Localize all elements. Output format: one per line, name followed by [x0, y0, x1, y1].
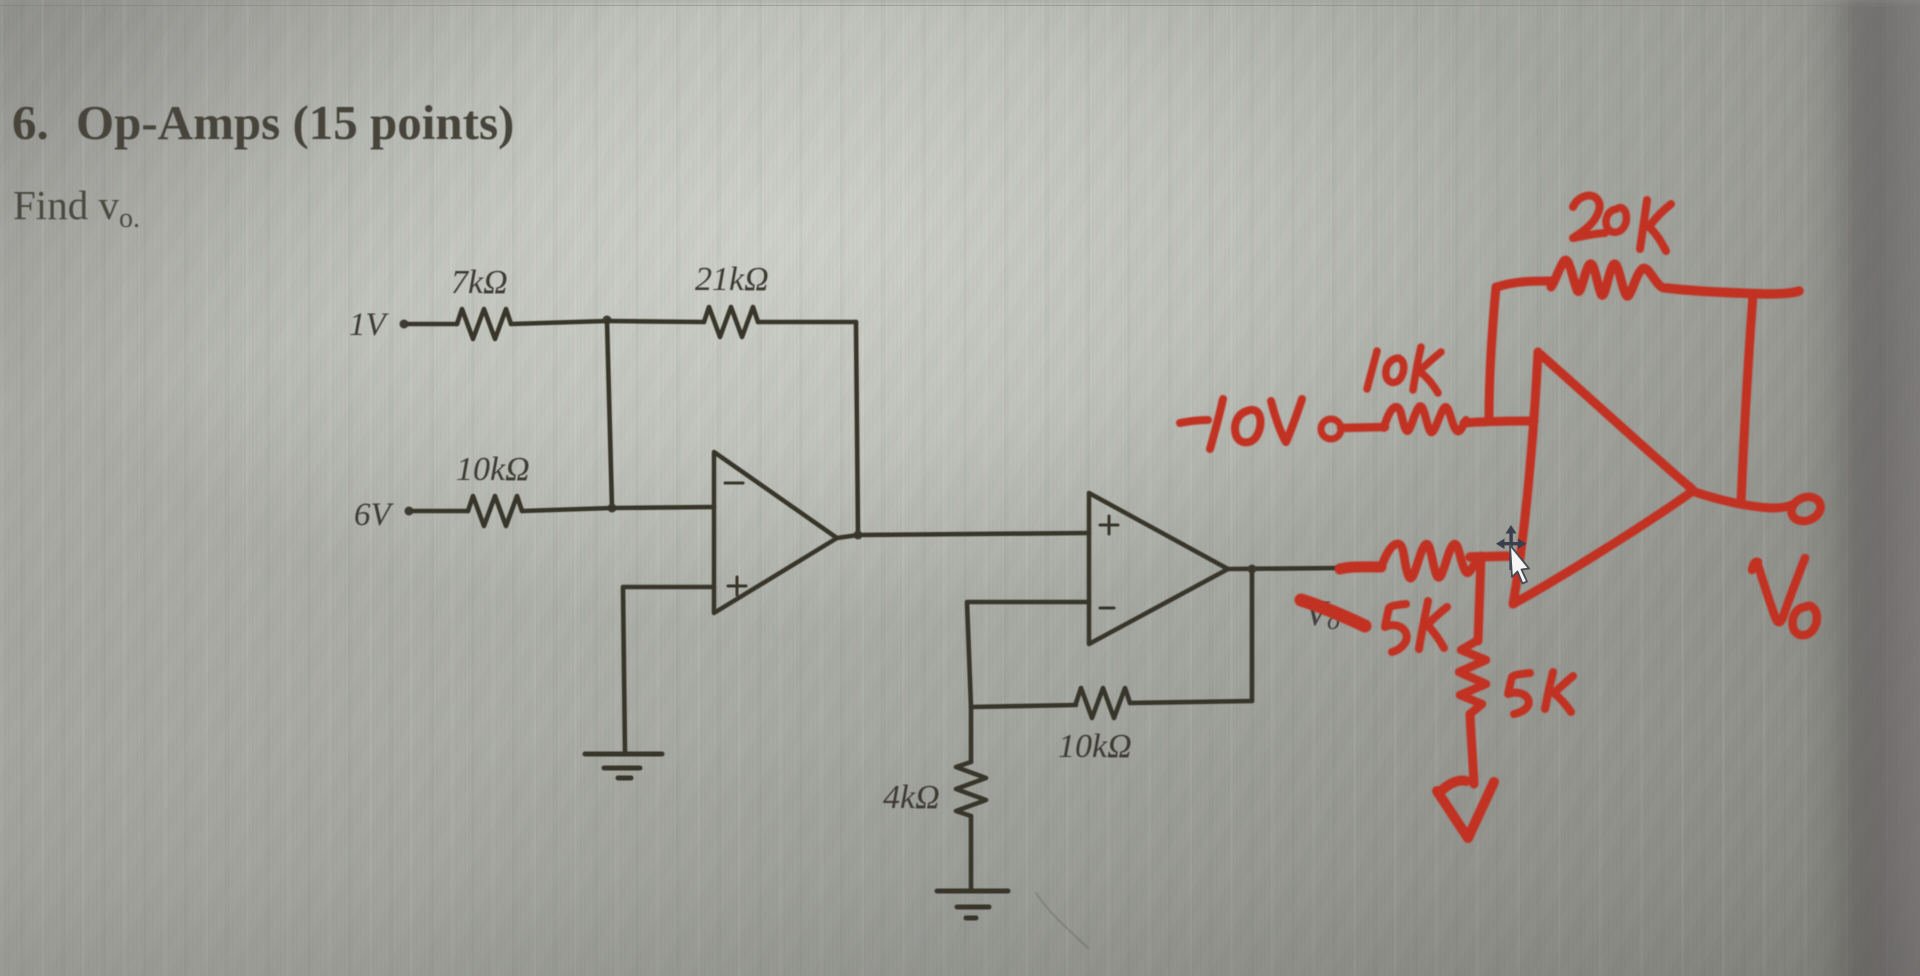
label Vo output (red): [1752, 558, 1817, 635]
op-amp U2 minus pin label: [1100, 607, 1114, 610]
node A junction dot: [603, 316, 612, 325]
node B output junction dot: [854, 531, 863, 540]
resistor 21k zigzag: [704, 307, 758, 337]
ground G3 red arrow: [1437, 780, 1494, 838]
label 7kOhm: [451, 264, 508, 301]
wire feedback to R 10k fb: [1130, 701, 1252, 703]
label -10V source (red): [1180, 399, 1302, 449]
svg-text:10kΩ: 10kΩ: [1058, 728, 1132, 765]
wire feedback vertical down to output node B: [856, 322, 858, 535]
wire U3 output: [1692, 491, 1792, 508]
wire -10V to R 10K red: [1341, 427, 1385, 428]
wire node C to op-amp U1 inverting input: [612, 507, 714, 508]
wire R 4k to ground G2: [969, 816, 974, 889]
scratch mark near G2: [1036, 893, 1088, 948]
wire R 10k to node C: [522, 508, 612, 511]
svg-text:7kΩ: 7kΩ: [451, 264, 508, 301]
op-amp U1 minus pin label: [725, 482, 743, 485]
strike through old Vo label (red): [1301, 600, 1365, 626]
resistor 10K red squiggle: [1384, 406, 1466, 432]
svg-text:6V: 6V: [354, 497, 395, 533]
label 10kOhm feedback: [1058, 728, 1132, 765]
terminal circle output (red): [1788, 493, 1824, 526]
wire U1 noninverting input to ground stub: [623, 587, 714, 753]
label 20K (red): [1573, 196, 1605, 238]
resistor 5K series squiggle: [1381, 544, 1480, 578]
wire R 10K red to op-amp U3: [1464, 421, 1534, 423]
wire node A to R 21k: [607, 321, 704, 322]
ground G1: [585, 754, 662, 778]
svg-text:Find vo.: Find vo.: [13, 182, 140, 234]
svg-text:21kΩ: 21kΩ: [695, 261, 769, 298]
node 1V terminal dot: [400, 320, 409, 329]
op-amp U2 triangle: [1089, 493, 1228, 644]
resistor 5K shunt vertical squiggle: [1459, 640, 1486, 714]
label 10K (red): [1367, 347, 1441, 393]
terminal circle -10V (red): [1321, 419, 1341, 439]
wire 6V to R 10k input: [413, 509, 468, 514]
node E junction dot: [1248, 565, 1257, 574]
svg-text:4kΩ: 4kΩ: [883, 779, 940, 816]
resistor 4k vertical zigzag: [956, 762, 986, 816]
wire U2 output to node E: [1228, 568, 1341, 569]
wire red feedback left vertical: [1489, 287, 1496, 421]
node C junction dot: [608, 504, 617, 513]
wire red feedback right vertical: [1741, 294, 1753, 503]
op-amp U3 triangle (red): [1513, 352, 1692, 604]
wire node F vertical down: [1478, 556, 1481, 641]
node 6V source label: [354, 497, 395, 533]
resistor 10k input zigzag: [468, 496, 522, 526]
svg-text:1V: 1V: [349, 307, 390, 343]
label 4kOhm: [883, 779, 940, 816]
wire node E feedback vertical down: [1250, 569, 1255, 701]
cursor pointer arrow: [1510, 545, 1529, 584]
crossed-out label Vo at U2 output: [1305, 593, 1340, 635]
wire R 7k to node A: [511, 321, 607, 324]
wire red feedback top left corner: [1497, 281, 1551, 287]
label 5K series (red): [1385, 601, 1447, 652]
resistor 10k feedback zigzag: [1076, 688, 1130, 718]
op-amp U1 triangle: [714, 452, 837, 613]
wire red overdraw at U2 output: [1340, 567, 1381, 569]
label 21kOhm: [695, 261, 769, 298]
wire 5K shunt to ground arrow: [1470, 714, 1474, 784]
node 1V source label: [349, 307, 390, 343]
wire node A down to inverting node C: [607, 321, 612, 508]
op-amp U2 plus pin label: [1100, 516, 1118, 534]
ground G2: [937, 891, 1008, 918]
resistor 7k zigzag: [457, 309, 511, 339]
svg-text:10kΩ: 10kΩ: [456, 451, 530, 488]
svg-text:6.: 6.: [12, 95, 49, 150]
wire node D to R 4k: [969, 707, 974, 762]
wire U1 output to node B and to U2: [837, 533, 1089, 538]
label 5K shunt (red): [1508, 672, 1573, 714]
label 10kOhm input: [456, 451, 530, 488]
wire U2 inverting input left and down to node D: [967, 602, 1089, 707]
wire 5K to node F and U3: [1470, 556, 1513, 557]
wire R 21k to corner: [758, 320, 856, 325]
svg-text:Op-Amps (15 points): Op-Amps (15 points): [76, 95, 514, 150]
title "6. Op-Amps (15 points)": [12, 95, 514, 150]
prompt "Find vo.": [13, 182, 140, 234]
wire 20K to right corner with end blob: [1666, 288, 1799, 294]
cursor move icon: [1496, 525, 1527, 570]
resistor 20K squiggle: [1551, 260, 1663, 296]
wire R 10k fb to node D: [971, 705, 1076, 707]
node 6V terminal dot: [405, 507, 414, 516]
wire 1V to R 7k: [408, 322, 457, 327]
op-amp U1 plus pin label: [728, 577, 746, 595]
